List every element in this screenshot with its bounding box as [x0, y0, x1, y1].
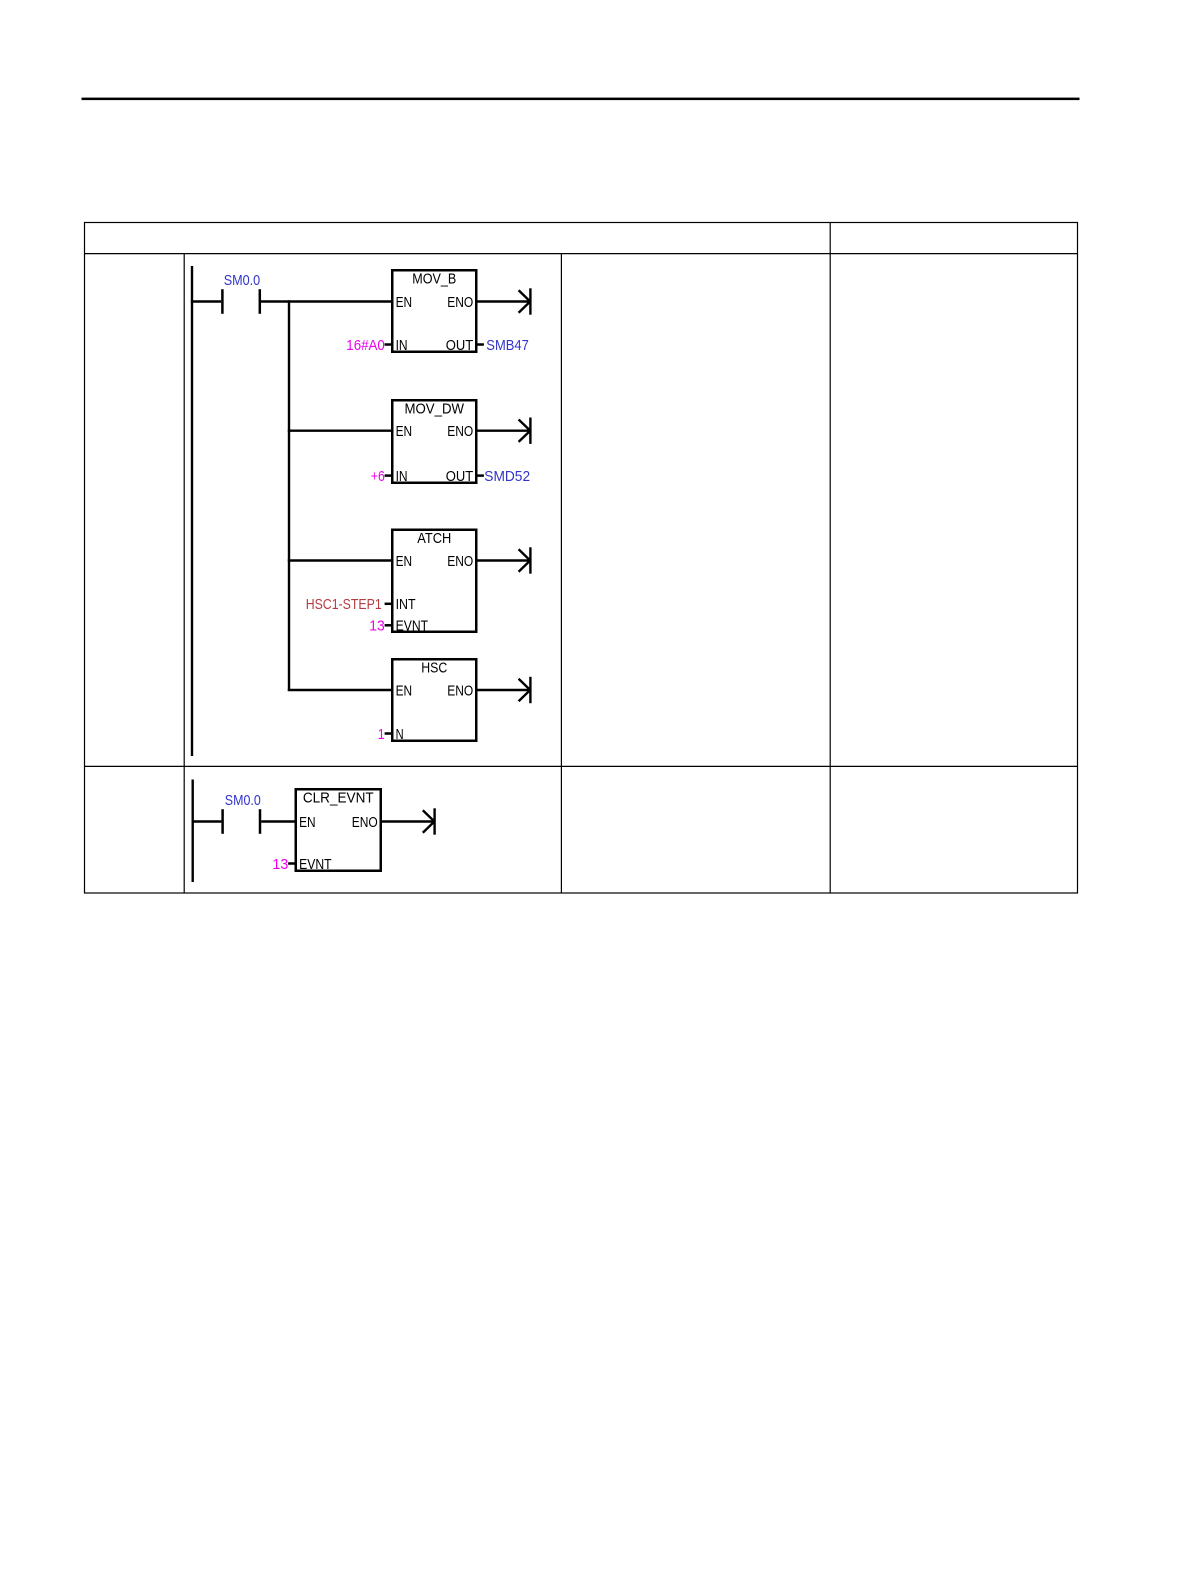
svg-text:MOV_B: MOV_B [412, 271, 456, 288]
svg-text:SM0.0: SM0.0 [224, 272, 261, 289]
svg-text:CLR_EVNT: CLR_EVNT [303, 790, 374, 807]
svg-text:EN: EN [396, 423, 413, 440]
svg-text:N: N [396, 726, 404, 743]
svg-text:SM0.0: SM0.0 [225, 792, 261, 809]
svg-text:16#A0: 16#A0 [346, 337, 385, 354]
svg-text:OUT: OUT [446, 468, 474, 485]
svg-text:ENO: ENO [352, 814, 378, 831]
svg-text:SMB47: SMB47 [486, 337, 529, 354]
svg-text:ENO: ENO [447, 423, 473, 440]
svg-text:EN: EN [299, 814, 316, 831]
svg-text:ENO: ENO [447, 682, 473, 699]
svg-text:INT: INT [396, 596, 416, 613]
svg-text:OUT: OUT [446, 337, 474, 354]
svg-text:EVNT: EVNT [396, 618, 429, 635]
svg-text:HSC: HSC [421, 660, 447, 677]
svg-text:13: 13 [272, 856, 288, 873]
svg-text:HSC1-STEP1: HSC1-STEP1 [306, 596, 382, 613]
svg-text:EN: EN [396, 682, 413, 699]
svg-text:IN: IN [396, 337, 408, 354]
svg-text:EN: EN [396, 294, 413, 311]
svg-text:IN: IN [396, 468, 408, 485]
svg-text:ENO: ENO [447, 553, 473, 570]
svg-text:ENO: ENO [447, 294, 473, 311]
svg-text:EVNT: EVNT [299, 856, 332, 873]
svg-text:ATCH: ATCH [417, 530, 451, 547]
svg-text:13: 13 [369, 618, 385, 635]
svg-text:1: 1 [378, 726, 385, 743]
svg-text:+6: +6 [371, 468, 385, 485]
svg-text:EN: EN [396, 553, 413, 570]
svg-text:MOV_DW: MOV_DW [405, 401, 465, 418]
svg-text:SMD52: SMD52 [484, 468, 530, 485]
